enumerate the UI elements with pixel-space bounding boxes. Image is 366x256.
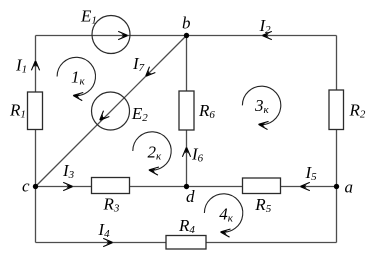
svg-text:I7: I7 [132,54,145,74]
node d [184,184,195,206]
wire left side [35,36,37,243]
svg-text:a: a [345,178,354,197]
svg-text:1к: 1к [71,67,86,87]
svg-text:E1: E1 [80,7,97,27]
resistor R2 [329,90,366,130]
wire right side [336,36,338,243]
loop arrow 3k [242,86,280,129]
node a [334,178,353,197]
svg-text:R2: R2 [349,100,366,120]
svg-text:b: b [182,14,191,33]
current arrow I3 [62,161,75,191]
current arrow I2 [259,16,272,40]
wire middle horizontal c-d-a [36,186,337,188]
svg-text:I5: I5 [305,163,318,183]
loop arrow 2k [133,132,171,175]
resistor R6 [179,91,215,130]
loop arrow 4k [204,194,242,237]
svg-text:I3: I3 [62,161,75,181]
loop arrow 1k [57,57,95,100]
current arrow I6 [182,145,203,165]
current arrow I1 [15,56,40,76]
node b [182,14,191,39]
wire bottom [36,242,337,244]
resistor R4 [166,216,206,249]
current arrow I5 [300,163,317,191]
source E1 [80,7,130,54]
node c [22,177,38,196]
resistor R5 [243,178,281,215]
current arrow I4 [97,220,113,247]
svg-text:R6: R6 [198,101,215,121]
svg-text:I4: I4 [97,220,110,240]
svg-text:4к: 4к [219,205,234,225]
svg-text:R1: R1 [9,100,26,120]
svg-text:I2: I2 [259,16,272,36]
svg-text:I6: I6 [191,145,204,165]
svg-text:R3: R3 [103,194,120,214]
svg-text:R4: R4 [178,216,195,236]
wire top b-branch [36,35,337,37]
svg-text:3к: 3к [254,96,270,116]
current arrow I7 [132,54,155,79]
source E2 [92,92,149,130]
wire diagonal b-c [36,36,187,187]
wire middle vertical b-d [186,36,188,187]
svg-text:E2: E2 [131,104,148,124]
resistor R3 [92,178,130,215]
svg-text:c: c [22,177,30,196]
svg-text:R5: R5 [254,195,271,215]
resistor R1 [9,92,43,130]
svg-text:2к: 2к [148,142,163,162]
svg-text:I1: I1 [15,56,27,76]
svg-text:d: d [186,187,195,206]
